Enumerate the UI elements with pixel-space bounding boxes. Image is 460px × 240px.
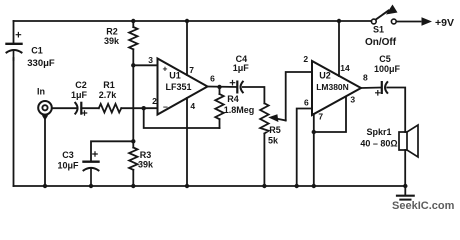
wire wiper to U2 pin 2 [286, 72, 312, 121]
wire U2 pin 7 to ground [313, 114, 315, 186]
junction top rail / U1 pin 7 [185, 19, 189, 23]
junction C3/R3 node [131, 139, 135, 143]
junction jack-ground [43, 184, 47, 188]
pin 7 label U1 [189, 65, 194, 75]
svg-text:SeekIC.com: SeekIC.com [392, 200, 455, 212]
svg-text:100μF: 100μF [374, 64, 401, 74]
wire U2 pin 8 output [361, 87, 381, 90]
R1 value label [99, 80, 118, 100]
wire feedback (pin2 tap down and right to R4 bottom) [144, 108, 220, 128]
op-amp U2 [312, 61, 361, 115]
R3 value label [138, 150, 154, 170]
wire R1 to U1 pin 2 [121, 107, 157, 109]
wire R3 to ground [132, 170, 134, 186]
pin 3 label U1 [148, 55, 153, 65]
R4 value label [224, 94, 255, 115]
wire C5 to speaker [387, 88, 405, 133]
svg-text:C2: C2 [75, 80, 87, 90]
svg-text:R5: R5 [269, 125, 281, 135]
capacitor C3 [84, 152, 99, 186]
wire R4 top stem [219, 87, 221, 94]
svg-text:4: 4 [190, 101, 195, 111]
wire bias node to U1 pin 3 [133, 64, 157, 66]
svg-text:R4: R4 [227, 94, 239, 104]
capacitor C4 [230, 81, 243, 93]
wire node to C3 [91, 141, 133, 161]
watermark SeekIC.com [392, 200, 455, 212]
R2 value label [104, 27, 120, 47]
op-amp U1 [158, 59, 208, 115]
S1 label [365, 25, 397, 49]
In label [37, 87, 45, 97]
U1 - input symbol [163, 102, 168, 112]
capacitor C1 [7, 33, 22, 61]
svg-text:7: 7 [318, 112, 323, 122]
ground symbol [397, 186, 414, 200]
wire jack sleeve to ground [44, 118, 46, 186]
svg-text:R3: R3 [140, 150, 152, 160]
svg-text:C1: C1 [31, 46, 43, 56]
wire top rail to R2 [132, 21, 134, 27]
svg-text:3: 3 [350, 95, 355, 105]
pin 6 label U2 [304, 98, 309, 108]
wire U2 pin 6 to ground [297, 109, 312, 187]
svg-text:+: + [163, 64, 168, 74]
resistor R5 (potentiometer) [260, 103, 268, 133]
svg-text:S1: S1 [373, 25, 384, 35]
pin 6 label U1 [210, 74, 215, 84]
junction output / R4 [217, 85, 221, 89]
svg-text:39k: 39k [104, 36, 120, 46]
wire R4 bottom stem [219, 119, 221, 128]
wire C4 to R5 top [243, 87, 265, 103]
U1 label [165, 71, 191, 93]
resistor R3 [129, 148, 137, 170]
svg-text:3: 3 [148, 55, 153, 65]
wire R2 to bias node [132, 49, 134, 65]
svg-text:R2: R2 [106, 27, 118, 37]
svg-text:1μF: 1μF [71, 90, 88, 100]
pin 2 label U2 [303, 54, 308, 64]
pin 14 label U2 [340, 63, 350, 73]
C5 value label [374, 54, 401, 74]
switch S1 [371, 5, 397, 24]
+9V label [435, 17, 454, 29]
R5 wiper arrow [268, 114, 286, 122]
junction U1 pin4-ground [185, 184, 189, 188]
wire bottom rail (ground) [14, 185, 406, 187]
junction speaker-ground [403, 184, 407, 188]
junction U2 pin6-ground [295, 184, 299, 188]
capacitor C5 [376, 82, 388, 95]
svg-text:40 – 80Ω: 40 – 80Ω [360, 139, 397, 149]
C2 value label [71, 80, 88, 100]
pin 8 label U2 [363, 73, 368, 83]
svg-text:R1: R1 [103, 80, 115, 90]
svg-text:LF351: LF351 [165, 82, 191, 92]
svg-text:In: In [37, 87, 45, 97]
svg-text:Spkr1: Spkr1 [366, 127, 391, 137]
wire speaker to ground rail [404, 150, 406, 186]
pin 7 label U2 [318, 112, 323, 122]
junction top rail / U2 pin 14 [337, 19, 341, 23]
wire left rail lower (C1 to bottom rail) [13, 58, 15, 186]
resistor R2 [129, 27, 137, 49]
wire U1 pin 6 output [208, 86, 238, 89]
pin 3 label U2 [350, 95, 355, 105]
svg-text:C5: C5 [379, 54, 391, 64]
svg-text:LM380N: LM380N [316, 82, 349, 92]
speaker Spkr1 [399, 125, 418, 157]
svg-text:C3: C3 [62, 150, 74, 160]
svg-text:2: 2 [152, 96, 157, 106]
wire jack tip to C2 [52, 107, 76, 109]
svg-text:14: 14 [340, 63, 350, 73]
junction feedback tap on pin 2 line [142, 106, 146, 110]
R5 value label [268, 125, 281, 146]
junction top rail / R2 [131, 19, 135, 23]
C1 value label [27, 46, 55, 70]
capacitor C2 [75, 103, 86, 115]
svg-text:+9V: +9V [435, 17, 454, 29]
wire top rail +9V [14, 20, 372, 22]
wire C2 to R1 [81, 107, 99, 109]
junction U2 pin7-ground [312, 184, 316, 188]
svg-text:10μF: 10μF [57, 161, 79, 171]
junction R5-ground [262, 184, 266, 188]
pin 4 label U1 [190, 101, 195, 111]
C3 value label [57, 150, 79, 171]
wire R5 to ground [263, 134, 265, 187]
svg-text:39k: 39k [138, 160, 154, 170]
svg-text:5k: 5k [268, 136, 279, 146]
wire S1 to +9V arrow [396, 21, 420, 23]
svg-text:On/Off: On/Off [365, 37, 397, 48]
svg-text:2: 2 [303, 54, 308, 64]
wire U2 pin 14 to top rail [338, 21, 340, 76]
svg-text:1μF: 1μF [233, 63, 250, 73]
junction R3-ground [131, 184, 135, 188]
svg-text:2.7k: 2.7k [99, 90, 118, 100]
svg-text:6: 6 [210, 74, 215, 84]
svg-text:330μF: 330μF [27, 58, 55, 69]
wire left rail upper (top rail to C1) [13, 21, 15, 43]
wire U1 pin 4 to ground (crosses feedback line, no connection) [186, 98, 188, 186]
resistor R1 [99, 104, 122, 113]
resistor R4 [215, 94, 223, 119]
wire R3 top stem [132, 141, 134, 147]
svg-text:U1: U1 [169, 71, 181, 81]
wire U1 pin 7 to top rail [186, 21, 188, 75]
+9V supply arrow [422, 17, 433, 25]
svg-text:6: 6 [304, 98, 309, 108]
U1 + input symbol [163, 64, 168, 74]
Spkr1 label [360, 127, 397, 149]
C4 value label [233, 54, 250, 73]
svg-text:U2: U2 [319, 71, 331, 81]
junction pin7/pin3 tie [312, 130, 316, 134]
U2 label [316, 71, 349, 93]
junction bias node (pin 3) [131, 63, 135, 67]
wire U2 pin 3 to pin 7 [314, 97, 346, 133]
wire bias node down to C3/R3 node (crosses input line, no connection) [132, 65, 134, 141]
pin 2 label U1 [152, 96, 157, 106]
connector J1 input jack "In" [38, 101, 52, 121]
svg-text:−: − [163, 102, 168, 112]
junction C3-ground [89, 184, 93, 188]
svg-text:1.8Meg: 1.8Meg [224, 105, 255, 115]
svg-text:8: 8 [363, 73, 368, 83]
svg-text:7: 7 [189, 65, 194, 75]
